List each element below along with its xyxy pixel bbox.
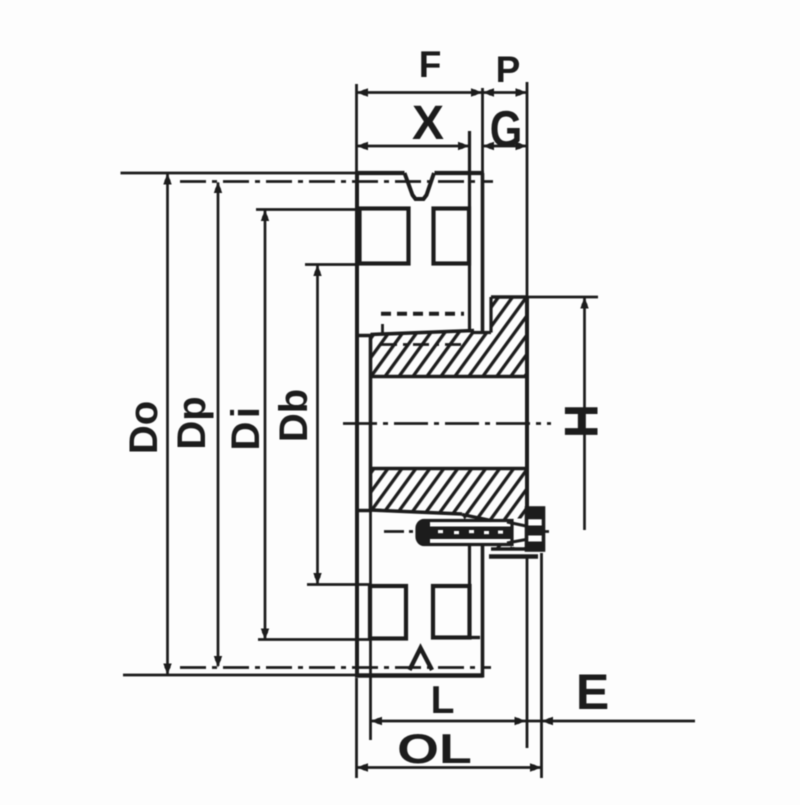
web recess bottom left [370, 586, 406, 639]
plate bore edge upper [355, 334, 372, 337]
web recess top left [360, 209, 409, 264]
sprocket right face upper [481, 173, 485, 333]
arrow X right [458, 142, 470, 150]
dimension G line [483, 145, 528, 148]
plate bore edge lower [355, 509, 372, 512]
arrow blobs [362, 89, 368, 95]
bushing top edge [371, 331, 475, 335]
set screw head band top [526, 507, 545, 520]
dimension OL line [357, 766, 542, 769]
extension line flange right bottom [526, 558, 529, 748]
svg-text:Do: Do [122, 401, 166, 454]
svg-text:P: P [496, 49, 521, 90]
bushing flange bottom edge [491, 547, 527, 551]
extension line screw end bottom [540, 553, 543, 778]
pitch line top [180, 180, 493, 183]
web recess top right [434, 209, 470, 264]
extension line sprocket right top [481, 88, 484, 171]
svg-text:Dp: Dp [170, 396, 214, 449]
dimension Dp line [217, 183, 220, 667]
svg-text:H: H [555, 404, 608, 438]
bushing left face [369, 337, 373, 510]
set screw head [527, 508, 544, 550]
extension line Do bottom [123, 674, 356, 677]
extension line sprocket left top [355, 84, 358, 171]
set screw neck clear [512, 519, 527, 548]
bore top edge [371, 375, 528, 379]
sprocket top edge right of groove [435, 171, 485, 175]
dimension Do line [166, 174, 169, 674]
arrow P left [483, 88, 495, 96]
extension line Di bottom [258, 638, 371, 641]
set screw left cap [417, 521, 430, 544]
set screw head band bottom [526, 542, 545, 552]
sprocket bottom edge [355, 673, 483, 678]
dimension Di line [264, 211, 267, 640]
extension line Di top [256, 208, 358, 211]
arrow G left [483, 142, 495, 150]
svg-text:G: G [490, 101, 523, 158]
recess bottom edge extension [470, 636, 481, 639]
arrow L left [371, 717, 383, 725]
dimension X line [357, 145, 470, 148]
arrow F left [357, 88, 369, 96]
tooth groove top [405, 173, 435, 199]
set screw neck taper top [507, 522, 526, 526]
sprocket right face lower [481, 546, 485, 678]
extension line H top [491, 296, 598, 299]
bushing flange right edge [525, 297, 529, 549]
bushing upper hatch [371, 297, 528, 377]
extension line Do top [121, 172, 357, 175]
extension line hub left bottom [369, 512, 372, 740]
center line bore axis [343, 422, 551, 425]
bushing bottom edge [371, 510, 463, 514]
sprocket top edge left of groove [355, 171, 405, 175]
web recess bottom right [433, 586, 470, 638]
svg-text:Db: Db [272, 389, 316, 442]
svg-text:E: E [576, 664, 609, 720]
set screw head band mid [526, 526, 545, 536]
dimension P line [483, 91, 528, 94]
arrow F right [471, 88, 483, 96]
bushing lower hatch [371, 469, 528, 550]
svg-text:X: X [412, 97, 444, 150]
set screw knurl band [426, 527, 511, 540]
sprocket relief line [468, 131, 471, 333]
extension line flange right top [526, 82, 529, 296]
bushing flange top edge [491, 295, 527, 299]
dimension L and E line [371, 720, 696, 723]
svg-text:L: L [431, 679, 455, 722]
svg-text:OL: OL [397, 726, 472, 773]
head lower step line [489, 554, 538, 559]
dimension H line [583, 298, 586, 530]
arrow G right [516, 142, 528, 150]
set screw body [417, 521, 512, 545]
arrow L right [515, 717, 527, 725]
set screw center line [384, 530, 552, 533]
bushing step top [473, 331, 491, 334]
extension line sprocket left bottom [355, 678, 358, 778]
tooth tip bottom [410, 648, 433, 670]
sprocket left face [355, 172, 359, 677]
dimension F line [357, 91, 483, 94]
extension line Db top [305, 263, 358, 266]
arrow X left [357, 142, 369, 150]
hidden line dashed above bushing [381, 312, 464, 316]
bushing lower boundary to screw [462, 515, 491, 521]
bore bottom edge [371, 467, 528, 471]
svg-text:F: F [419, 44, 442, 85]
bushing flange left edge [489, 297, 492, 333]
sprocket relief line lower [468, 545, 471, 638]
arrow P right [516, 88, 528, 96]
pitch line bottom [180, 666, 491, 669]
arrow E left [542, 717, 554, 725]
taper tick [381, 324, 384, 333]
dimension Db line [316, 266, 319, 584]
extension line Db bottom [307, 583, 371, 586]
svg-text:Di: Di [224, 404, 268, 451]
taper dash line in hatch [381, 343, 462, 346]
set screw neck taper bottom [507, 540, 526, 544]
